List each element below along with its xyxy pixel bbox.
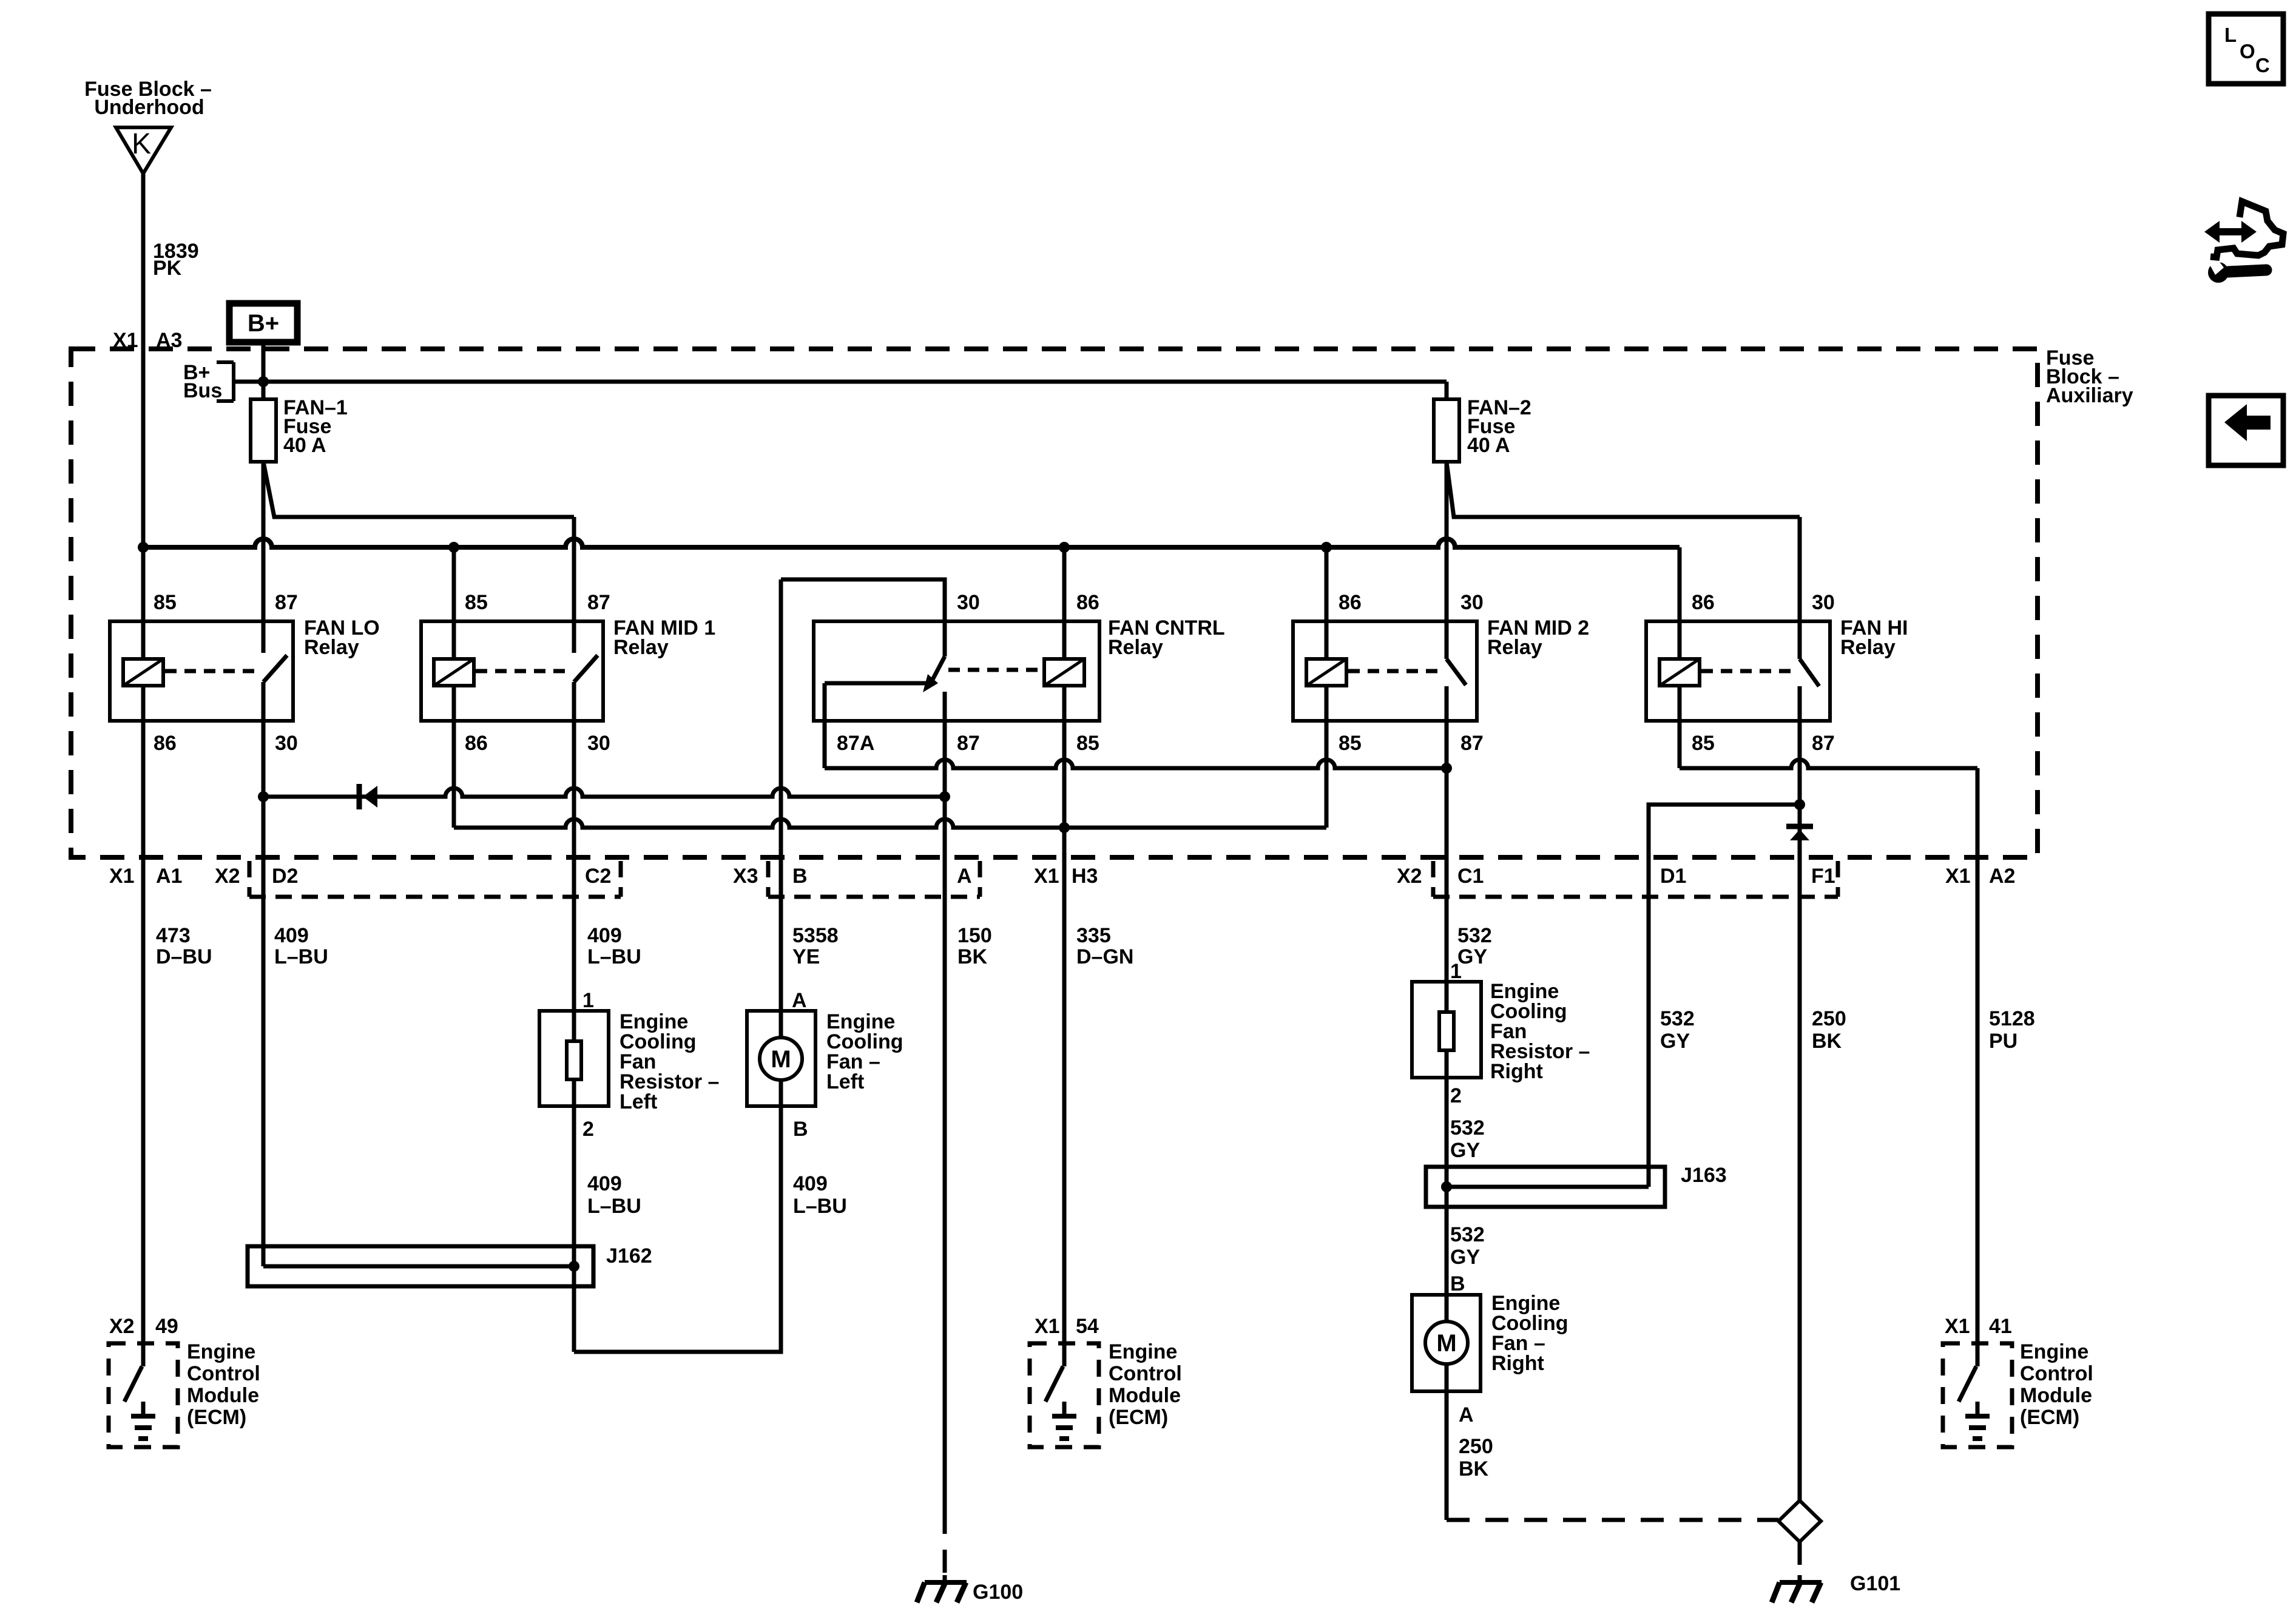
svg-text:A: A (957, 865, 972, 888)
pin 87 FAN MID 1 (587, 591, 610, 614)
label 5128 PU (1989, 1007, 2035, 1053)
relay FAN MID 1 (421, 621, 603, 721)
svg-text:Control: Control (2020, 1362, 2093, 1385)
svg-text:Engine: Engine (2020, 1340, 2088, 1363)
svg-text:40 A: 40 A (1467, 434, 1510, 457)
label 409 L-BU (C2) (587, 924, 641, 968)
svg-text:GY: GY (1457, 945, 1487, 968)
label Engine Control Module (ECM) left (187, 1340, 260, 1429)
svg-text:X2: X2 (109, 1315, 135, 1338)
wire fan left B to J162 (409 L-BU) (574, 1080, 781, 1352)
svg-text:30: 30 (275, 732, 298, 755)
svg-text:Left: Left (826, 1070, 864, 1093)
pin X1 A2 (1945, 865, 2015, 888)
pin X3 B (733, 865, 808, 888)
svg-text:PU: PU (1989, 1030, 2017, 1053)
svg-text:J163: J163 (1681, 1164, 1727, 1187)
svg-text:F1: F1 (1811, 865, 1835, 888)
svg-text:X1: X1 (1945, 1315, 1970, 1338)
label 532 GY (C1) (1457, 924, 1492, 968)
svg-text:85: 85 (1339, 732, 1362, 755)
svg-text:409: 409 (793, 1172, 828, 1195)
svg-text:409: 409 (587, 1172, 622, 1195)
svg-text:GY: GY (1660, 1030, 1690, 1053)
wire FAN HI 85 to X1 A2 (1680, 760, 1977, 768)
label Fuse Block - Auxiliary (2046, 346, 2133, 407)
label FAN MID 2 Relay (1487, 616, 1589, 659)
svg-text:30: 30 (1812, 591, 1835, 614)
wire bus down to FAN HI 86 (1678, 547, 1682, 659)
svg-text:409: 409 (587, 924, 622, 947)
wire 87A to FAN MID 2 87 (825, 760, 1447, 768)
pin 30 FAN HI (1812, 591, 1835, 614)
svg-text:2: 2 (1450, 1084, 1462, 1107)
wire FAN-2 fuse branch to FAN HI 30 (1447, 462, 1800, 517)
svg-text:D–BU: D–BU (156, 945, 212, 968)
pin 85 FAN HI (1692, 732, 1715, 755)
diode (FAN LO 30 line) (359, 784, 377, 809)
svg-text:30: 30 (1460, 591, 1484, 614)
pin 85 FAN MID 2 (1339, 732, 1362, 755)
svg-text:GY: GY (1450, 1246, 1480, 1269)
wire FAN-2 fuse output down to FAN MID 2 30 (1445, 462, 1449, 659)
label G100 (973, 1581, 1023, 1604)
pin X2 C1 (1397, 865, 1484, 888)
wire resistor right to J163 (532 GY) (1445, 1050, 1449, 1322)
pin 87A FAN CNTRL (837, 732, 874, 755)
pin 87 FAN MID 2 (1460, 732, 1484, 755)
wire coil common line (MID1 86 - CNTRL 85 - MID2 85) (454, 819, 1326, 828)
svg-text:40 A: 40 A (283, 434, 326, 457)
svg-text:87: 87 (275, 591, 298, 614)
svg-text:Bus: Bus (183, 379, 222, 402)
node J162 splice (569, 1261, 579, 1272)
connector K triangle (Fuse Block - Underhood) (116, 127, 171, 174)
resistor Engine Cooling Fan Resistor - Left (539, 1011, 609, 1106)
label B+ Bus (183, 361, 222, 402)
pin B fan right (1450, 1272, 1465, 1295)
pin A fan right (1459, 1403, 1474, 1426)
svg-text:X1: X1 (109, 865, 135, 888)
wire FAN MID 2 87 to resistor right (532 GY) (1445, 686, 1449, 1012)
label 473 D-BU (156, 924, 212, 968)
label FAN LO Relay (304, 616, 380, 659)
ground G100 (917, 1575, 967, 1602)
pin 85 FAN LO (154, 591, 177, 614)
svg-text:85: 85 (154, 591, 177, 614)
svg-text:X2: X2 (215, 865, 240, 888)
svg-text:C: C (2255, 54, 2270, 76)
pin B fan left (793, 1118, 808, 1141)
svg-text:30: 30 (587, 732, 610, 755)
wire branch down to FAN HI 30 (1798, 517, 1802, 659)
wire fan right A down (250 BK) (1445, 1364, 1449, 1520)
svg-text:D2: D2 (272, 865, 298, 888)
svg-text:J162: J162 (606, 1244, 652, 1268)
fuse FAN-2 40A (1434, 399, 1459, 462)
wire X3 B to fan left (5358 YE) (779, 579, 783, 1038)
svg-text:Engine: Engine (187, 1340, 255, 1363)
wire B+ bus horizontal (234, 380, 1447, 384)
node FAN HI 87 / D1 branch (1794, 799, 1805, 810)
pin X1 41 (1945, 1315, 2012, 1338)
wire 1839 PK (K to bus and FAN LO 85) (141, 173, 146, 659)
svg-text:86: 86 (154, 732, 177, 755)
label FAN-2 Fuse 40 A (1467, 396, 1531, 457)
node diode line / FAN CNTRL 87 (939, 791, 950, 802)
svg-text:M: M (1436, 1330, 1456, 1357)
svg-text:M: M (771, 1046, 791, 1073)
label 335 D-GN (1076, 924, 1133, 968)
node bus / FAN LO 85 (138, 542, 149, 553)
label 532 GY (resistor right lower) (1450, 1116, 1485, 1162)
wire FAN HI 85 down (1678, 686, 1682, 768)
pin A fan left (792, 989, 807, 1012)
node bus / FAN CNTRL 86 (1059, 542, 1070, 553)
relay FAN MID 2 (1293, 621, 1477, 721)
ECM module (X1-54) with internal switch and ground (1030, 1343, 1099, 1447)
relay FAN CNTRL (814, 621, 1099, 721)
wire 250 BK dashed to splice diamond (1447, 1518, 1778, 1522)
svg-text:G100: G100 (973, 1581, 1023, 1604)
connector X2 left strip (249, 861, 621, 897)
wire FAN LO 30 to J162 (409 L-BU) (262, 682, 266, 1266)
svg-text:532: 532 (1450, 1223, 1485, 1246)
junction block J162 (248, 1246, 593, 1286)
wire FAN MID 1 86 down (452, 686, 456, 828)
label 1839 PK (153, 240, 199, 280)
wire FAN-1 fuse branch to FAN MID 1 87 (263, 462, 574, 517)
relay FAN LO (110, 621, 293, 721)
svg-text:41: 41 (1989, 1315, 2012, 1338)
svg-text:L: L (2224, 24, 2237, 46)
svg-text:Module: Module (187, 1384, 259, 1407)
ECM module (X2-49) with internal switch and ground (109, 1343, 178, 1447)
node coil line / FAN CNTRL 85 (1059, 822, 1070, 833)
label FAN-1 Fuse 40 A (283, 396, 348, 457)
svg-text:Relay: Relay (613, 636, 669, 659)
label FAN HI Relay (1840, 616, 1908, 659)
svg-text:(ECM): (ECM) (187, 1406, 246, 1429)
wire FAN CNTRL 30 loop to X3 B wire (781, 579, 945, 657)
svg-text:Left: Left (620, 1090, 657, 1113)
svg-text:A: A (792, 989, 807, 1012)
pin D1 (1660, 865, 1686, 888)
pin X2 D2 (215, 865, 298, 888)
svg-text:87: 87 (1460, 732, 1484, 755)
label 532 GY (below J163) (1450, 1223, 1485, 1269)
svg-text:409: 409 (274, 924, 309, 947)
svg-text:532: 532 (1457, 924, 1492, 947)
pin 1 resistor left (582, 989, 594, 1012)
label J163 (1681, 1164, 1727, 1187)
label 409 L-BU (resistor left lower) (587, 1172, 641, 1218)
label 250 BK (F1) (1812, 1007, 1846, 1053)
svg-text:Control: Control (1109, 1362, 1182, 1385)
pin 86 FAN MID 1 (465, 732, 488, 755)
svg-text:Relay: Relay (304, 636, 359, 659)
svg-text:A: A (1459, 1403, 1474, 1426)
wire bus down to FAN MID 1 85 (452, 547, 456, 659)
pin 30 FAN MID 1 (587, 732, 610, 755)
label Engine Control Module (ECM) middle (1109, 1340, 1182, 1429)
svg-text:X2: X2 (1397, 865, 1422, 888)
connector X3 strip (768, 861, 980, 897)
icon connector-view (double arrow, car outline, wrench) (2204, 201, 2283, 283)
svg-text:87: 87 (957, 732, 980, 755)
svg-text:Right: Right (1491, 1352, 1544, 1375)
wire B+ bus down to FAN-2 fuse (1445, 382, 1449, 399)
svg-text:(ECM): (ECM) (2020, 1406, 2079, 1429)
svg-text:BK: BK (957, 945, 988, 968)
svg-text:BK: BK (1812, 1030, 1842, 1053)
B+ bus bracket (217, 362, 234, 401)
wire X1 A2 to ECM X1-41 (5128 PU) (1976, 768, 1980, 1343)
label FAN CNTRL Relay (1108, 616, 1225, 659)
wire D1 branch (532 GY) (1649, 805, 1800, 1187)
svg-text:O: O (2240, 40, 2255, 62)
junction block J163 (1426, 1167, 1665, 1207)
svg-text:Relay: Relay (1487, 636, 1542, 659)
wire FAN CNTRL 87 to G100 (150 BK) (943, 692, 947, 1511)
pin 86 FAN CNTRL (1076, 591, 1099, 614)
wire FAN CNTRL 85 to ECM X1-54 (335 D-GN) (1062, 686, 1067, 1343)
wire relay supply bus (143, 539, 1680, 547)
pin 86 FAN HI (1692, 591, 1715, 614)
svg-text:86: 86 (1076, 591, 1099, 614)
svg-text:5128: 5128 (1989, 1007, 2035, 1030)
pin 87 FAN HI (1812, 732, 1835, 755)
pin 86 FAN LO (154, 732, 177, 755)
relay FAN HI (1646, 621, 1830, 721)
svg-text:B: B (793, 1118, 808, 1141)
ground G101 (1772, 1575, 1822, 1602)
pin 2 resistor right (1450, 1084, 1462, 1107)
icon back arrow box (2209, 396, 2283, 465)
svg-text:86: 86 (1339, 591, 1362, 614)
svg-text:2: 2 (582, 1118, 594, 1141)
svg-text:B+: B+ (248, 310, 279, 337)
svg-text:X3: X3 (733, 865, 758, 888)
wire branch down to FAN MID 1 87 (572, 517, 576, 653)
label G101 (1850, 1572, 1900, 1595)
svg-text:335: 335 (1076, 924, 1111, 947)
svg-text:L–BU: L–BU (793, 1195, 847, 1218)
svg-text:86: 86 (465, 732, 488, 755)
svg-text:49: 49 (155, 1315, 178, 1338)
svg-text:473: 473 (156, 924, 191, 947)
pin X1 A3 (113, 329, 182, 352)
svg-text:5358: 5358 (792, 924, 839, 947)
svg-text:Module: Module (2020, 1384, 2092, 1407)
wire bus down to FAN CNTRL 86 (1062, 547, 1067, 659)
svg-text:A1: A1 (156, 865, 182, 888)
pin 2 resistor left (582, 1118, 594, 1141)
svg-text:54: 54 (1076, 1315, 1099, 1338)
wire 87A vertical (823, 683, 827, 768)
svg-text:1: 1 (582, 989, 594, 1012)
label 250 BK (fan right A) (1459, 1435, 1493, 1480)
svg-text:532: 532 (1660, 1007, 1695, 1030)
pin X1 54 (1035, 1315, 1099, 1338)
pin 30 FAN LO (275, 732, 298, 755)
svg-text:Auxiliary: Auxiliary (2046, 384, 2133, 407)
resistor Engine Cooling Fan Resistor - Right (1412, 982, 1481, 1078)
svg-text:H3: H3 (1072, 865, 1098, 888)
ECM module (X1-41) with internal switch and ground (1943, 1343, 2012, 1447)
icon LOC box (2209, 14, 2283, 84)
svg-text:87A: 87A (837, 732, 874, 755)
svg-text:Engine: Engine (1109, 1340, 1177, 1363)
svg-text:Right: Right (1490, 1060, 1543, 1083)
pin 30 FAN CNTRL (957, 591, 980, 614)
fuse block auxiliary dashed outline (71, 349, 2038, 857)
svg-text:B: B (1450, 1272, 1465, 1295)
label 409 L-BU (D2) (274, 924, 328, 968)
wire 150 BK dashed to G100 (943, 1511, 947, 1575)
svg-text:85: 85 (1076, 732, 1099, 755)
terminal B+ (229, 303, 297, 342)
svg-text:A2: A2 (1989, 865, 2015, 888)
svg-text:X1: X1 (1945, 865, 1971, 888)
svg-text:87: 87 (1812, 732, 1835, 755)
svg-text:Control: Control (187, 1362, 260, 1385)
pin 86 FAN MID 2 (1339, 591, 1362, 614)
pin 1 resistor right (1450, 960, 1462, 983)
wire FAN MID 2 85 down (1325, 686, 1329, 828)
svg-text:X1: X1 (1035, 1315, 1060, 1338)
svg-text:30: 30 (957, 591, 980, 614)
diode (FAN HI 87 to F1) (1786, 826, 1813, 840)
pin X1 A1 (109, 865, 182, 888)
svg-text:(ECM): (ECM) (1109, 1406, 1168, 1429)
pin 87 FAN LO (275, 591, 298, 614)
wire dashed diamond to G101 (1798, 1542, 1802, 1575)
svg-text:D1: D1 (1660, 865, 1686, 888)
pin C2 (585, 865, 611, 888)
wire bus down to FAN MID 2 86 (1325, 547, 1329, 659)
svg-text:K: K (132, 128, 151, 160)
label 150 BK (957, 924, 992, 968)
svg-text:D–GN: D–GN (1076, 945, 1133, 968)
pin 30 FAN MID 2 (1460, 591, 1484, 614)
svg-text:BK: BK (1459, 1457, 1489, 1480)
label FAN MID 1 Relay (613, 616, 715, 659)
label Engine Control Module (ECM) right (2020, 1340, 2093, 1429)
pin 85 FAN CNTRL (1076, 732, 1099, 755)
svg-text:532: 532 (1450, 1116, 1485, 1139)
svg-text:85: 85 (1692, 732, 1715, 755)
wire FAN MID 1 30 to resistor left (409 L-BU) (572, 682, 576, 1041)
label Engine Cooling Fan Resistor - Left (620, 1010, 719, 1113)
svg-text:Module: Module (1109, 1384, 1181, 1407)
node bus / FAN MID 1 85 (448, 542, 459, 553)
label Engine Cooling Fan - Right (1491, 1292, 1568, 1375)
wire B+ to FAN-1 fuse (262, 342, 266, 399)
svg-text:X1: X1 (1034, 865, 1059, 888)
svg-text:C2: C2 (585, 865, 611, 888)
svg-text:L–BU: L–BU (587, 945, 641, 968)
wire resistor left to J162 (409 L-BU) (572, 1079, 576, 1352)
svg-text:L–BU: L–BU (587, 1195, 641, 1218)
label J162 (606, 1244, 652, 1268)
label Fuse Block - Underhood (84, 78, 212, 119)
connector X2 right strip (1433, 861, 1838, 897)
motor Engine Cooling Fan - Left (747, 1011, 815, 1106)
label 532 GY (D1) (1660, 1007, 1695, 1053)
motor Engine Cooling Fan - Right (1412, 1295, 1481, 1391)
splice diamond (250 BK junction) (1778, 1501, 1821, 1542)
pin X1 H3 (1034, 865, 1098, 888)
svg-text:GY: GY (1450, 1139, 1480, 1162)
pin 87 FAN CNTRL (957, 732, 980, 755)
pin F1 (1811, 865, 1835, 888)
svg-text:86: 86 (1692, 591, 1715, 614)
node diode line / FAN LO 30 (258, 791, 269, 802)
wire FAN HI 87 to F1 diode to G101 (250 BK) (1798, 686, 1802, 1501)
label Engine Cooling Fan - Left (826, 1010, 903, 1093)
pin A (957, 865, 972, 888)
pin 85 FAN MID 1 (465, 591, 488, 614)
label 5358 YE (792, 924, 839, 968)
svg-text:Relay: Relay (1108, 636, 1163, 659)
svg-text:87: 87 (587, 591, 610, 614)
svg-text:Relay: Relay (1840, 636, 1896, 659)
node bus / FAN MID 2 86 (1321, 542, 1332, 553)
svg-text:C1: C1 (1457, 865, 1484, 888)
fuse FAN-1 40A (251, 399, 276, 462)
wire diode line FAN LO 30 to FAN CNTRL 87 (263, 788, 945, 797)
svg-text:250: 250 (1812, 1007, 1846, 1030)
svg-text:85: 85 (465, 591, 488, 614)
node J163 splice (1441, 1181, 1452, 1192)
label Engine Cooling Fan Resistor - Right (1490, 980, 1590, 1083)
pin X2 49 (109, 1315, 178, 1338)
svg-text:B: B (792, 865, 808, 888)
svg-text:Underhood: Underhood (94, 96, 204, 119)
wire FAN-1 fuse output down to FAN LO 87 (262, 462, 266, 653)
svg-text:PK: PK (153, 257, 182, 280)
svg-text:G101: G101 (1850, 1572, 1900, 1595)
svg-text:1: 1 (1450, 960, 1462, 983)
node B+ bus / FAN-1 junction (258, 376, 269, 387)
label 409 L-BU (fan left B) (793, 1172, 847, 1218)
node FAN MID 2 87 junction (1441, 763, 1452, 774)
svg-text:L–BU: L–BU (274, 945, 328, 968)
svg-text:YE: YE (792, 945, 820, 968)
svg-text:250: 250 (1459, 1435, 1493, 1458)
wire FAN LO 86 to ECM X2-49 (473 D-BU) (141, 686, 146, 1343)
svg-text:150: 150 (957, 924, 992, 947)
